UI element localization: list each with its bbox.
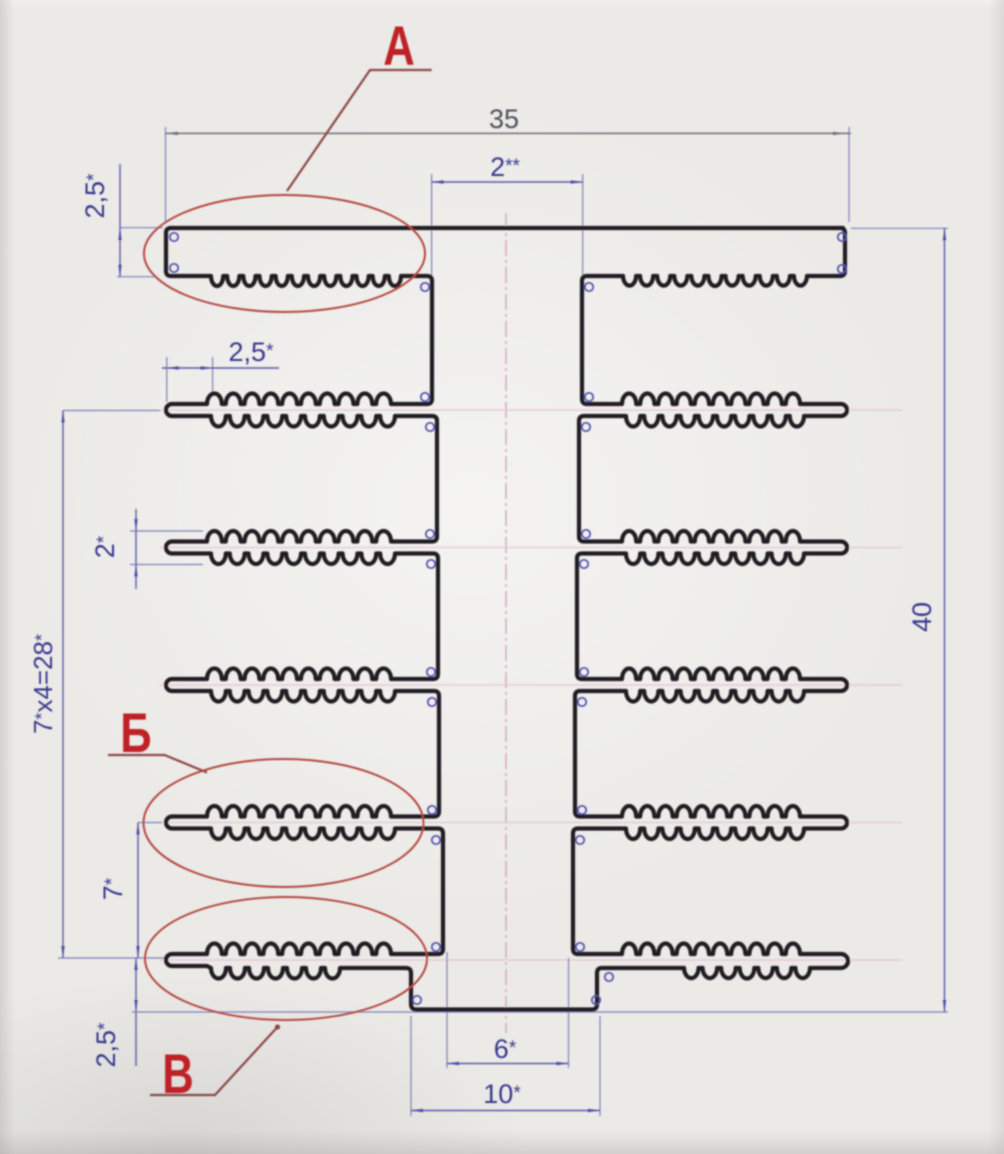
svg-text:10*: 10*	[483, 1079, 521, 1109]
row 5 construction line	[160, 822, 902, 824]
svg-text:А: А	[383, 15, 415, 77]
ellipse V	[145, 897, 427, 1020]
row 3 construction line	[160, 547, 902, 549]
left spine vertex markers	[421, 283, 429, 291]
svg-text:2,5*: 2,5*	[91, 1022, 121, 1068]
dimension 2,5* top left	[80, 164, 163, 277]
svg-text:2,5*: 2,5*	[229, 337, 275, 367]
top bar vertex markers	[170, 233, 178, 241]
label B leader	[108, 755, 207, 773]
centerline vertical	[505, 213, 507, 1033]
label V leader	[150, 1027, 278, 1095]
dimension 2* row3	[90, 509, 203, 589]
svg-text:2*: 2*	[90, 535, 120, 558]
dimension 6*	[447, 952, 569, 1068]
svg-text:35: 35	[489, 104, 519, 134]
bottom extension line	[132, 1011, 948, 1013]
svg-text:6*: 6*	[494, 1034, 517, 1064]
svg-text:7*: 7*	[98, 877, 128, 900]
svg-text:40: 40	[907, 602, 937, 632]
dimension 7*	[98, 823, 162, 959]
row 2 construction line	[160, 409, 902, 411]
svg-text:В: В	[162, 1043, 194, 1105]
dimension 10*	[411, 1016, 600, 1116]
label A leader	[287, 70, 432, 191]
svg-text:7*x4=28*: 7*x4=28*	[28, 634, 58, 734]
dimension 2,5* bottom left	[91, 958, 138, 1067]
svg-text:2,5*: 2,5*	[80, 173, 110, 219]
bottom step vertex markers	[413, 996, 421, 1004]
row 4 construction line	[160, 684, 902, 686]
row 6 construction line	[160, 959, 902, 961]
dimension 40	[851, 228, 948, 1012]
svg-text:Б: Б	[120, 702, 151, 764]
right spine vertex markers	[585, 283, 593, 291]
svg-text:2**: 2**	[490, 152, 520, 182]
ellipse A	[144, 195, 425, 312]
dimension 2,5* row2	[162, 337, 279, 402]
dimension 35	[166, 104, 852, 222]
ellipse B	[144, 759, 424, 887]
dimension 7*x4=28*	[28, 411, 168, 959]
dimension 2**	[432, 152, 583, 283]
heater wire outline	[166, 228, 848, 1010]
